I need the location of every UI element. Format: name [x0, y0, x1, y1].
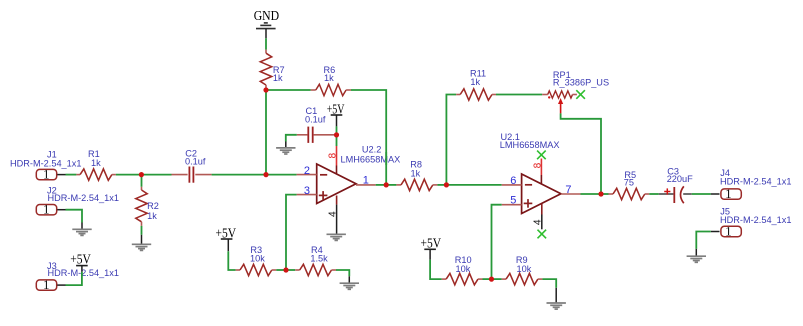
resistor R3 — [236, 264, 277, 275]
pin 4 of U2.1 — [541, 204, 543, 215]
pin 6 of U2.1 — [502, 184, 522, 186]
svg-text:HDR-M-2.54_1x1: HDR-M-2.54_1x1 — [10, 158, 81, 168]
svg-text:1: 1 — [725, 186, 732, 201]
wire +5V stem at C1 — [336, 115, 338, 126]
wire +5V to R10 — [430, 260, 442, 279]
wire R6 to feedback corner — [351, 90, 386, 185]
junction +5V/C1/pin8 node — [334, 132, 339, 137]
svg-text:1k: 1k — [273, 73, 283, 83]
svg-text:220uF: 220uF — [667, 174, 693, 184]
svg-text:8: 8 — [327, 152, 338, 158]
ground GND symbol — [256, 23, 276, 29]
junction R10/R9 node — [489, 277, 494, 282]
pin 8 of U2.1 — [540, 159, 542, 176]
wire feedback over label — [385, 152, 387, 165]
svg-text:R2: R2 — [147, 201, 159, 211]
resistor R10 — [442, 273, 483, 284]
junction output U2.2 — [384, 182, 389, 187]
wire R10 to junction — [483, 278, 492, 280]
wire node to R6 — [266, 89, 311, 91]
supply +5V tee at C1 — [331, 114, 343, 116]
resistor R6 — [311, 84, 351, 95]
trimmer RP1 — [542, 91, 577, 114]
svg-text:+5V: +5V — [216, 225, 237, 240]
ground under U2.2 pin 4 — [327, 234, 346, 240]
connector J1 — [36, 166, 56, 181]
wire J3 stub — [57, 284, 65, 286]
svg-text:1.5k: 1.5k — [310, 254, 328, 264]
wire junction to R8 — [386, 184, 396, 186]
svg-text:10k: 10k — [517, 264, 532, 274]
pin 1 of U2.2 — [356, 184, 376, 186]
wire J2 stub — [57, 209, 65, 211]
wire J2 ground stem — [81, 223, 83, 230]
wire C1 to ground corner — [286, 135, 297, 142]
wire J1 stub — [57, 174, 65, 176]
resistor R8 — [396, 179, 437, 190]
svg-text:U2.2: U2.2 — [362, 145, 381, 155]
resistor R5 — [609, 188, 650, 199]
wire J4 stub — [711, 193, 720, 195]
svg-text:1k: 1k — [411, 169, 421, 179]
wire J5 to ground — [696, 232, 711, 249]
svg-text:+5V: +5V — [327, 101, 345, 116]
svg-text:HDR-M-2.54_1x1: HDR-M-2.54_1x1 — [720, 177, 791, 187]
no-connect X at U2.1 pin 8 — [537, 151, 546, 160]
wire node down to input line — [265, 90, 267, 175]
wire junction to R9 — [492, 278, 502, 280]
wire J5 ground stem — [695, 249, 697, 256]
capacitor C3 polarized — [659, 186, 692, 203]
junction R7/feedback node — [263, 87, 268, 92]
wire J2 to ground — [66, 210, 83, 223]
svg-text:+5V: +5V — [70, 252, 91, 267]
wire pin3 to R3/R4 node — [286, 195, 297, 270]
junction output U2.1 — [598, 191, 603, 196]
pin 5 of U2.1 — [502, 204, 522, 206]
wire J1 to R1 — [66, 174, 77, 176]
wire junction up to R11 — [446, 95, 456, 185]
pin 2 of U2.2 — [297, 174, 317, 176]
svg-text:75: 75 — [624, 177, 634, 187]
junction R1/R2 node — [139, 172, 144, 177]
svg-text:2: 2 — [304, 165, 310, 177]
wire RP1 wiper to output node — [561, 113, 601, 194]
wire junction to pin 8 — [336, 135, 338, 146]
op-amp U2.2 — [317, 164, 356, 204]
wire R8 to junction — [437, 184, 446, 186]
wire J5 stub — [711, 231, 720, 233]
wire R2 to ground — [141, 226, 143, 235]
svg-text:1k: 1k — [147, 211, 157, 221]
svg-text:LMH6658MAX: LMH6658MAX — [341, 154, 401, 164]
resistor R1 — [76, 169, 116, 180]
ground under R2 — [132, 244, 151, 250]
wire junction to R4 — [286, 269, 295, 271]
wire R1 to junction — [116, 174, 141, 176]
junction input node — [263, 172, 268, 177]
no-connect X at RP1 pin — [576, 90, 585, 99]
wire +5V to J3 — [66, 272, 82, 285]
resistor R9 — [502, 273, 543, 284]
wire R4 to ground — [336, 270, 349, 276]
resistor R11 — [456, 89, 496, 100]
wire pin 7 to junction — [581, 193, 602, 195]
wire R2 ground stem — [141, 235, 143, 245]
junction R3/R4 node — [283, 267, 288, 272]
wire C1 ground stem — [285, 142, 287, 148]
wire junction to R5 — [601, 193, 609, 195]
wire +5V stem at J3 — [81, 266, 83, 272]
supply +5V tee at R10 — [424, 248, 436, 250]
wire +5V to junction — [336, 126, 338, 134]
pin 8 of U2.2 — [336, 146, 338, 166]
junction R8/R11 node — [444, 182, 449, 187]
svg-text:1k: 1k — [470, 77, 480, 87]
svg-text:1: 1 — [363, 175, 369, 187]
svg-text:0.1uf: 0.1uf — [185, 157, 206, 167]
wire GND stem — [265, 29, 267, 39]
wire R9 ground stem — [555, 288, 557, 303]
wire junction down to R2 — [141, 175, 143, 187]
wire pin 5 to R10/R9 node — [492, 205, 502, 279]
connector J3 — [36, 277, 56, 292]
svg-text:1: 1 — [43, 166, 50, 181]
svg-text:HDR-M-2.54_1x1: HDR-M-2.54_1x1 — [48, 193, 119, 203]
resistor R4 — [295, 264, 336, 275]
op-amp U2.1 — [522, 174, 561, 214]
ground under J2 — [72, 229, 91, 235]
ground under C1 — [276, 148, 295, 154]
ground under J5 — [687, 256, 706, 262]
pin 4 of U2.2 — [336, 196, 338, 205]
capacitor C1 — [297, 127, 334, 143]
wire R5 to C3 — [649, 193, 659, 195]
svg-text:6: 6 — [510, 175, 516, 187]
svg-text:1k: 1k — [91, 158, 101, 168]
svg-text:GND: GND — [254, 8, 280, 23]
connector J4 — [721, 186, 741, 201]
no-connect X at U2.1 pin 4 — [538, 230, 547, 239]
svg-text:3: 3 — [304, 185, 310, 197]
svg-text:10k: 10k — [456, 264, 471, 274]
svg-text:4: 4 — [327, 211, 338, 217]
resistor R7 — [260, 50, 271, 89]
svg-text:7: 7 — [565, 184, 571, 196]
wire R3 to junction — [276, 269, 286, 271]
svg-text:HDR-M-2.54_1x1: HDR-M-2.54_1x1 — [48, 268, 119, 278]
svg-text:0.1uf: 0.1uf — [305, 114, 326, 124]
wire R9 to ground — [542, 279, 556, 288]
svg-text:LMH6658MAX: LMH6658MAX — [500, 140, 560, 150]
wire C2 to node — [212, 174, 297, 176]
connector J2 — [36, 202, 56, 217]
svg-text:5: 5 — [510, 195, 516, 207]
ground under R4 — [340, 283, 359, 289]
pin 3 of U2.2 — [297, 194, 317, 196]
svg-text:4: 4 — [533, 219, 544, 225]
svg-text:R_3386P_US: R_3386P_US — [553, 78, 609, 88]
svg-text:10k: 10k — [250, 254, 265, 264]
svg-text:+5V: +5V — [421, 236, 442, 251]
resistor R2 — [136, 187, 147, 226]
wire R4 ground stem — [348, 276, 350, 283]
wire +5V to R3 — [228, 251, 235, 270]
supply +5V tee at R3 — [221, 238, 233, 240]
pin 7 of U2.1 — [561, 193, 581, 195]
svg-text:1: 1 — [43, 277, 50, 292]
svg-text:8: 8 — [533, 162, 544, 168]
svg-text:HDR-M-2.54_1x1: HDR-M-2.54_1x1 — [720, 215, 791, 225]
ground under R9 — [547, 303, 566, 309]
capacitor C2 — [172, 167, 212, 183]
wire R8 node to pin 6 — [446, 184, 501, 186]
wire C3 to J4 — [692, 193, 711, 195]
wire R11 to RP1 — [496, 94, 542, 96]
wire +5V stem at R3 — [227, 239, 229, 251]
supply +5V tee at J3 — [76, 265, 88, 267]
wire pin1 to feedback junction — [376, 184, 387, 186]
svg-text:1: 1 — [725, 224, 732, 239]
svg-text:1k: 1k — [324, 73, 334, 83]
wire +5V stem at R10 — [429, 249, 431, 259]
wire junction to C2 — [141, 174, 171, 176]
wire GND to R7 — [265, 38, 267, 49]
svg-text:1: 1 — [43, 202, 50, 217]
connector J5 — [721, 224, 741, 239]
